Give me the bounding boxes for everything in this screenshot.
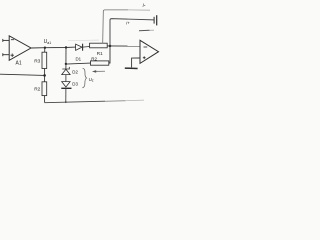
wire inner rail to capacitor (i+) — [110, 19, 154, 46]
wire outer feedback rail (i-) — [103, 10, 150, 43]
wire D2 branch down — [65, 48, 67, 69]
brace Uz — [82, 68, 86, 88]
svg-text:R1: R1 — [97, 51, 103, 56]
resistor R3 — [42, 48, 47, 76]
zener D2 — [62, 67, 70, 81]
wire A1 output to D1 — [31, 46, 76, 49]
resistor R1 — [90, 43, 108, 48]
wire bottom rail — [45, 101, 105, 103]
ground — [125, 67, 138, 69]
node dot wire/R3/R2 junction — [43, 74, 46, 77]
op-amp A1 — [3, 36, 31, 61]
svg-text:i-: i- — [143, 3, 146, 9]
node dot D2 branch on main wire — [65, 46, 67, 48]
resistor R2 (horizontal) — [91, 61, 109, 65]
wire R1 to A2 inverting input — [107, 45, 140, 47]
node dot D3 bottom on rail — [65, 101, 67, 103]
op-amp A2 — [140, 40, 159, 63]
node dot summing — [109, 45, 112, 48]
svg-text:R3: R3 — [34, 59, 40, 65]
svg-text:A1: A1 — [16, 60, 22, 66]
svg-text:Uz: Uz — [89, 77, 94, 83]
svg-text:D3: D3 — [72, 81, 78, 86]
resistor R2 (vertical) — [42, 75, 47, 102]
svg-text:R2: R2 — [91, 56, 97, 61]
faint artifact line above D1 — [68, 39, 99, 41]
svg-text:D1: D1 — [76, 56, 82, 61]
current arrow under R2 — [92, 70, 105, 73]
wire dash near A2 top — [139, 29, 150, 31]
wire node to R2 (horizontal) — [65, 63, 67, 65]
svg-text:D2: D2 — [72, 69, 78, 74]
node dot at R3 top — [44, 47, 46, 49]
diode D1 — [76, 44, 90, 51]
zener D3 — [61, 82, 71, 103]
capacitor (right edge) — [154, 15, 157, 25]
wire bottom-left input — [0, 74, 45, 75]
svg-text:R2: R2 — [34, 86, 40, 92]
svg-text:i+: i+ — [126, 21, 130, 26]
svg-text:Ua1: Ua1 — [44, 39, 52, 45]
wire A2 + input — [132, 58, 140, 67]
wire R2 to summing node — [109, 46, 110, 63]
